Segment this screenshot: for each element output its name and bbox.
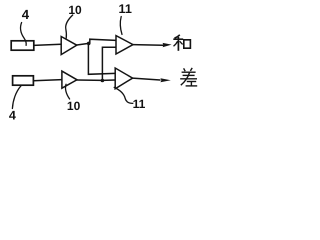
- wire cross2: dot2 up and right to lower input of amp 11 (top): [102, 47, 115, 80]
- wire box4(bottom) to amp 10 (bottom): [33, 80, 61, 81]
- wire box4(top) to amp 10 (top): [34, 44, 61, 45]
- label difference (Chinese char CHA) drawn as strokes: [180, 68, 197, 86]
- label 10 (top): [68, 3, 82, 17]
- amp U10 (top) triangle: [61, 37, 77, 55]
- amp U10 (bottom) triangle: [62, 71, 77, 88]
- amp U11 (top) triangle: [116, 36, 133, 54]
- svg-text:4: 4: [9, 108, 16, 120]
- amp U11 (bottom) triangle: [115, 68, 132, 89]
- svg-text:4: 4: [22, 7, 30, 22]
- svg-text:11: 11: [119, 2, 132, 16]
- svg-text:10: 10: [68, 3, 82, 17]
- label 11 (top): [119, 2, 132, 16]
- box 4 (top transducer): [11, 41, 34, 50]
- node dot1 (junction): [87, 42, 91, 46]
- wire amp10(top) tip to node dot1: [77, 43, 89, 45]
- leader line for bottom label 11: [114, 87, 133, 103]
- label 4 (top): [22, 7, 30, 22]
- box 4 (bottom transducer): [13, 76, 34, 85]
- label sum (Chinese char HE) drawn as strokes: [173, 35, 190, 51]
- arrowhead sum: [163, 43, 172, 47]
- wire jog up from dot1 to upper input of amp 11 (top): [90, 39, 116, 43]
- node dot2 (junction): [101, 79, 105, 83]
- wire cross1: dot1 down and right to upper input of amp 11 (bottom): [88, 43, 115, 74]
- leader line for bottom label 4: [12, 86, 21, 109]
- svg-text:11: 11: [133, 97, 146, 111]
- output wire sum with arrowhead: [133, 44, 163, 47]
- label 4 (bottom): [9, 108, 16, 122]
- leader line for top label 4: [20, 23, 26, 46]
- label 11 (bottom): [133, 97, 146, 111]
- arrowhead difference: [160, 78, 170, 82]
- leader line for top label 10: [66, 15, 73, 38]
- wire amp10(bottom) tip to node dot2 and on to lower input of amp 11 (bottom): [77, 79, 115, 81]
- leader line for top label 11: [120, 17, 122, 35]
- leader line for bottom label 10: [65, 84, 69, 99]
- output wire difference with arrowhead: [133, 78, 160, 80]
- svg-text:10: 10: [67, 99, 81, 113]
- label 10 (bottom): [67, 99, 81, 113]
